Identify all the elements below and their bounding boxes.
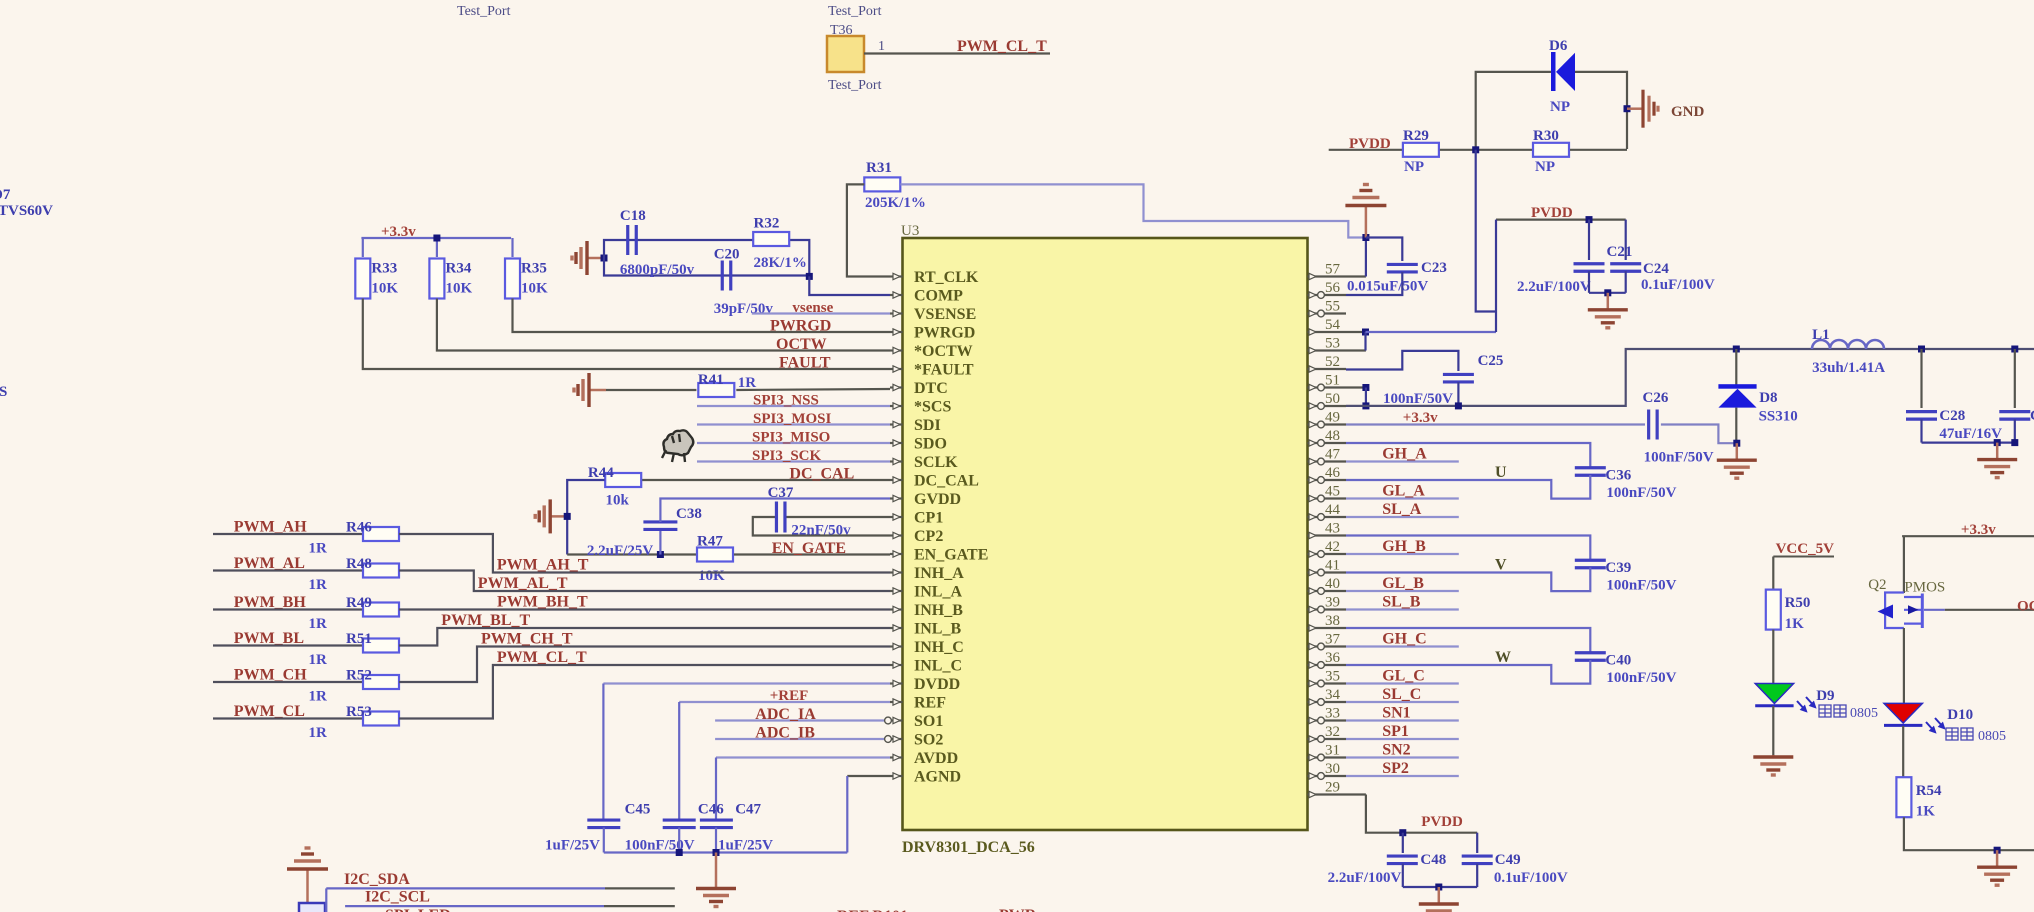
wire C49 bottom bbox=[1476, 864, 1478, 887]
pin DTC stub bbox=[890, 386, 903, 388]
svg-text:2.2uF/25V: 2.2uF/25V bbox=[587, 543, 653, 559]
resistor R48 bbox=[363, 564, 399, 578]
svg-text:C48: C48 bbox=[1420, 852, 1446, 868]
pin *SCS stub bbox=[890, 405, 903, 407]
svg-text:REF: REF bbox=[914, 695, 946, 712]
wire I2C_SCL wire bbox=[345, 905, 604, 907]
junction PVDD gnd node bbox=[1604, 289, 1611, 296]
svg-text:1R: 1R bbox=[309, 689, 328, 705]
wire C49 top bbox=[1476, 833, 1478, 853]
capacitor C25 bbox=[1443, 374, 1474, 382]
svg-text:56: 56 bbox=[1325, 280, 1341, 296]
junction R54 gnd node bbox=[1994, 847, 2001, 854]
svg-text:48: 48 bbox=[1325, 428, 1340, 444]
svg-text:1R: 1R bbox=[309, 725, 328, 741]
svg-text:INL_A: INL_A bbox=[914, 584, 962, 601]
svg-text:32: 32 bbox=[1325, 724, 1340, 740]
pin *OCTW stub bbox=[890, 349, 903, 351]
wire output gnd rail bbox=[1922, 442, 2015, 444]
wire C38 to GVDD bbox=[660, 499, 890, 523]
junction C29 top node bbox=[2011, 346, 2018, 353]
capacitor C29 bbox=[1999, 412, 2030, 420]
svg-text:C46: C46 bbox=[698, 802, 724, 818]
wire net SL_A wire bbox=[1346, 516, 1459, 518]
connector fragment bottom-left bbox=[299, 903, 325, 912]
svg-text:SL_B: SL_B bbox=[1382, 594, 1421, 611]
pin INL_B stub bbox=[890, 627, 903, 629]
svg-text:vsense: vsense bbox=[792, 300, 833, 316]
svg-text:0805: 0805 bbox=[1978, 729, 2006, 744]
wire SCS net bbox=[697, 405, 890, 407]
wire BST wire C40 bbox=[1346, 628, 1590, 653]
wire PVDD bottom gnd rail bbox=[1403, 886, 1477, 888]
svg-text:SPI3_MISO: SPI3_MISO bbox=[752, 430, 830, 446]
wire net SP1 wire bbox=[1346, 738, 1459, 740]
svg-text:10K: 10K bbox=[446, 281, 473, 297]
wire BST wire C39 bbox=[1346, 536, 1590, 561]
capacitor C18 bbox=[628, 225, 637, 255]
svg-text:R48: R48 bbox=[346, 556, 372, 572]
wire C24 top bbox=[1625, 220, 1627, 260]
wire net GL_C wire bbox=[1346, 682, 1459, 684]
junction C47 rail node bbox=[713, 849, 720, 856]
capacitor C47 bbox=[700, 820, 733, 828]
LED D10 red bbox=[1884, 703, 1944, 732]
wire R31 to RT_CLK bbox=[847, 184, 890, 276]
svg-text:SO1: SO1 bbox=[914, 713, 943, 730]
resistor R44 bbox=[605, 473, 641, 487]
wire D6 right bbox=[1575, 72, 1627, 149]
wire analog ground rail bbox=[604, 851, 848, 853]
svg-text:50: 50 bbox=[1325, 391, 1340, 407]
svg-text:EN_GATE: EN_GATE bbox=[914, 547, 988, 564]
svg-text:29: 29 bbox=[1325, 780, 1340, 796]
junction C48 top node bbox=[1399, 829, 1406, 836]
ground ground GND symbol bbox=[1627, 90, 1658, 128]
resistor R51 bbox=[363, 639, 399, 653]
svg-text:I2C_SDA: I2C_SDA bbox=[344, 871, 410, 888]
wire C21 bottom bbox=[1588, 271, 1590, 293]
svg-text:SN2: SN2 bbox=[1382, 742, 1410, 759]
pin AGND stub bbox=[890, 775, 903, 777]
pin 36 stub bbox=[1308, 664, 1347, 666]
wire PWM_CL wire left bbox=[213, 717, 363, 719]
wire R35 top bbox=[511, 238, 513, 257]
junction pin57 node bbox=[1362, 234, 1369, 241]
junction C28 top node bbox=[1918, 346, 1925, 353]
svg-text:100nF/50V: 100nF/50V bbox=[625, 838, 695, 854]
resistor R53 bbox=[363, 712, 399, 726]
wire I2C_SCL wire ext bbox=[604, 905, 675, 907]
svg-text:R51: R51 bbox=[346, 631, 372, 647]
wire PVDD drop bbox=[1495, 220, 1497, 332]
wire VSENSE stub bbox=[752, 312, 890, 314]
wire PWM_CH wire to IC bbox=[399, 647, 890, 683]
pin 32 stub bbox=[1308, 738, 1347, 740]
wire AGND wire bbox=[847, 775, 890, 777]
capacitor C38 bbox=[643, 522, 677, 530]
wire pin29 net bbox=[1366, 795, 1477, 833]
svg-text:R52: R52 bbox=[346, 668, 372, 684]
wire C26 to D8 node bbox=[1661, 425, 1737, 444]
svg-text:40: 40 bbox=[1325, 576, 1340, 592]
svg-text:33uh/1.41A: 33uh/1.41A bbox=[1812, 360, 1885, 376]
svg-text:1uF/25V: 1uF/25V bbox=[545, 838, 600, 854]
capacitor C48 bbox=[1387, 856, 1418, 864]
wire VCC_5V stub bbox=[1773, 556, 1834, 558]
svg-text:35: 35 bbox=[1325, 669, 1340, 685]
junction pin51 corner bbox=[1362, 384, 1369, 391]
wire I2C_SDA wire bbox=[326, 887, 605, 889]
svg-text:C21: C21 bbox=[1607, 244, 1633, 260]
svg-text:+3.3v: +3.3v bbox=[1403, 410, 1438, 426]
wire pin54-53 tie bbox=[1364, 332, 1366, 351]
svg-text:30: 30 bbox=[1325, 761, 1340, 777]
wire D6 loop bbox=[1476, 72, 1551, 150]
svg-text:0805: 0805 bbox=[1850, 706, 1878, 721]
wire C48 top bbox=[1402, 833, 1404, 853]
svg-text:L1: L1 bbox=[1812, 327, 1830, 343]
svg-text:1R: 1R bbox=[309, 616, 328, 632]
pin GVDD stub bbox=[890, 497, 903, 499]
wire EN_GATE wire right bbox=[734, 553, 890, 555]
wire PWM_AH wire left bbox=[213, 533, 363, 535]
svg-text:GL_B: GL_B bbox=[1382, 575, 1424, 592]
inductor L1 bbox=[1812, 340, 1884, 349]
svg-text:2.2uF/100V: 2.2uF/100V bbox=[1328, 870, 1402, 886]
wire net GH_C wire bbox=[1346, 645, 1459, 647]
pin 50 stub bbox=[1308, 405, 1347, 407]
svg-text:R29: R29 bbox=[1403, 128, 1429, 144]
ground ground at R44 bbox=[535, 499, 567, 533]
svg-text:C28: C28 bbox=[1939, 408, 1965, 424]
wire comp bottom path bbox=[604, 258, 809, 276]
ground ground at R41 bbox=[574, 373, 606, 407]
svg-text:ADC_IB: ADC_IB bbox=[755, 725, 815, 742]
junction GND node D6 bbox=[1624, 105, 1631, 112]
wire D10 to R54 bbox=[1902, 726, 1904, 778]
pin CP2 stub bbox=[890, 534, 903, 536]
wire D9 to ground bbox=[1772, 706, 1774, 755]
svg-text:D10: D10 bbox=[1947, 707, 1973, 723]
pin 30 stub bbox=[1308, 775, 1347, 777]
wire C28 bottom bbox=[1920, 419, 1922, 442]
pin INH_B stub bbox=[890, 608, 903, 610]
svg-text:INL_C: INL_C bbox=[914, 658, 962, 675]
pin *FAULT stub bbox=[890, 368, 903, 370]
svg-text:PWM_BL_T: PWM_BL_T bbox=[441, 612, 530, 629]
ground ground under R54 bbox=[1977, 850, 2017, 885]
svg-text:*OCTW: *OCTW bbox=[914, 343, 973, 360]
wire Q2 gate wire bbox=[1924, 609, 1945, 611]
pin INL_C stub bbox=[890, 664, 903, 666]
wire net SL_C wire bbox=[1346, 701, 1459, 703]
ground ground above pin57 bbox=[1345, 185, 1386, 238]
svg-text:1uF/25V: 1uF/25V bbox=[718, 838, 773, 854]
wire D8 anode drop bbox=[1735, 408, 1737, 444]
pin COMP stub bbox=[890, 294, 903, 296]
junction D8 anode node bbox=[1733, 440, 1740, 447]
svg-text:1R: 1R bbox=[309, 577, 328, 593]
svg-text:SP1: SP1 bbox=[1382, 723, 1409, 740]
pin 52 stub bbox=[1308, 368, 1347, 370]
svg-text:AVDD: AVDD bbox=[914, 750, 958, 767]
wire R29 node drop bbox=[1476, 150, 1496, 312]
wire Q2 source riser bbox=[1903, 536, 1905, 593]
svg-text:28K/1%: 28K/1% bbox=[754, 255, 807, 271]
svg-text:100nF/50V: 100nF/50V bbox=[1606, 670, 1676, 686]
svg-text:100nF/50V: 100nF/50V bbox=[1606, 578, 1676, 594]
ground ground under D8 bbox=[1717, 443, 1757, 478]
svg-text:C18: C18 bbox=[620, 208, 646, 224]
svg-text:D7: D7 bbox=[0, 187, 11, 203]
junction C29 bottom node bbox=[2011, 439, 2018, 446]
svg-text:41: 41 bbox=[1325, 558, 1340, 574]
svg-text:1R: 1R bbox=[309, 652, 328, 668]
svg-text:GL_A: GL_A bbox=[1382, 483, 1425, 500]
svg-text:PWR: PWR bbox=[999, 907, 1037, 912]
svg-text:SS310: SS310 bbox=[1759, 409, 1798, 425]
capacitor C46 bbox=[663, 820, 696, 828]
svg-text:DRV8301_DCA_56: DRV8301_DCA_56 bbox=[902, 839, 1035, 856]
wire AGND drop bbox=[846, 776, 848, 853]
wire C46 bottom bbox=[678, 828, 680, 853]
wire to COMP pin bbox=[809, 276, 890, 295]
svg-text:INH_A: INH_A bbox=[914, 565, 964, 582]
wire PWM_AH wire to IC bbox=[399, 534, 890, 573]
wire CP1 wire bbox=[785, 516, 890, 518]
wire net SP2 wire bbox=[1346, 775, 1459, 777]
svg-text:R54: R54 bbox=[1916, 783, 1942, 799]
D10 CJK label 红灯 0805 bbox=[1946, 728, 1973, 740]
wire +3.3v rail bbox=[361, 237, 511, 239]
wire PWM_CL wire to IC bbox=[399, 665, 890, 719]
wire CP1-CP2 link bbox=[753, 517, 890, 536]
svg-text:C47: C47 bbox=[735, 802, 761, 818]
junction C38 EN_GATE node bbox=[657, 551, 664, 558]
transistor Q2 PMOS bbox=[1885, 593, 1922, 629]
capacitor C26 bbox=[1649, 410, 1658, 440]
svg-text:PWM_CL_T: PWM_CL_T bbox=[497, 649, 587, 666]
wire PWM_AL wire left bbox=[213, 569, 363, 571]
svg-text:SDO: SDO bbox=[914, 436, 947, 453]
svg-text:49: 49 bbox=[1325, 410, 1340, 426]
pin 44 stub bbox=[1308, 516, 1347, 518]
svg-text:R30: R30 bbox=[1533, 128, 1559, 144]
resistor R34 bbox=[429, 259, 444, 299]
svg-text:R35: R35 bbox=[521, 261, 547, 277]
wire phase V wire bbox=[1346, 568, 1590, 592]
wire SDO net bbox=[697, 442, 890, 444]
LED D9 green bbox=[1755, 684, 1815, 712]
svg-text:R44: R44 bbox=[588, 465, 614, 481]
wire phase U wire bbox=[1346, 475, 1590, 499]
wire EN_GATE wire left bbox=[567, 553, 696, 555]
pin INH_C stub bbox=[890, 645, 903, 647]
wire SO1 wire bbox=[715, 719, 890, 721]
resistor R41 bbox=[698, 383, 734, 397]
svg-text:47: 47 bbox=[1325, 447, 1341, 463]
wire R29 to R30 bbox=[1440, 149, 1532, 151]
pin 42 stub bbox=[1308, 553, 1347, 555]
svg-text:0.1uF/100V: 0.1uF/100V bbox=[1494, 870, 1568, 886]
junction C25 bottom node bbox=[1455, 402, 1462, 409]
svg-text:C23: C23 bbox=[1421, 260, 1447, 276]
svg-text:43: 43 bbox=[1325, 521, 1340, 537]
svg-text:GL_C: GL_C bbox=[1382, 668, 1425, 685]
svg-text:COMP: COMP bbox=[914, 288, 963, 305]
capacitor C20 bbox=[722, 261, 731, 291]
wire R41 to DTC bbox=[736, 389, 890, 390]
pin 38 stub bbox=[1308, 627, 1347, 629]
pin 29 stub bbox=[1308, 793, 1366, 795]
svg-text:+REF: +REF bbox=[770, 688, 809, 704]
resistor R33 bbox=[355, 259, 370, 299]
svg-text:EN_GATE: EN_GATE bbox=[772, 540, 846, 557]
pin 31 stub bbox=[1308, 756, 1347, 758]
wire +3.3v wire bbox=[1346, 423, 1645, 425]
svg-text:GH_A: GH_A bbox=[1382, 446, 1427, 463]
wire ground to R41 bbox=[606, 389, 696, 391]
svg-text:SL_A: SL_A bbox=[1382, 501, 1422, 518]
svg-text:10K: 10K bbox=[698, 568, 725, 584]
svg-text:INH_C: INH_C bbox=[914, 639, 964, 656]
svg-text:1R: 1R bbox=[738, 375, 757, 391]
junction R29 R30 node bbox=[1472, 146, 1479, 153]
svg-text:OCTW: OCTW bbox=[776, 336, 827, 353]
svg-text:INL_B: INL_B bbox=[914, 621, 961, 638]
pin SO2 stub bbox=[890, 738, 903, 740]
pin SO1 stub bbox=[890, 719, 903, 721]
svg-text:51: 51 bbox=[1325, 373, 1340, 389]
svg-text:42: 42 bbox=[1325, 539, 1340, 555]
capacitor C28 bbox=[1906, 412, 1937, 420]
wire PVDD to R29 bbox=[1329, 149, 1402, 151]
svg-text:DC_CAL: DC_CAL bbox=[789, 466, 854, 483]
pin 48 stub bbox=[1308, 442, 1347, 444]
wire pin52 to C25 top bbox=[1346, 351, 1458, 371]
wire C24 bottom bbox=[1625, 271, 1627, 293]
wire T36 pin 1 to PWM_CL_T bbox=[864, 52, 1050, 54]
svg-text:CP2: CP2 bbox=[914, 528, 943, 545]
svg-text:D9: D9 bbox=[1816, 688, 1834, 704]
svg-text:0.015uF/50V: 0.015uF/50V bbox=[1347, 279, 1428, 295]
svg-text:PWM_CL_T: PWM_CL_T bbox=[957, 38, 1047, 55]
svg-text:10K: 10K bbox=[371, 281, 398, 297]
svg-text:100nF/50V: 100nF/50V bbox=[1383, 391, 1453, 407]
wire REF wire bbox=[679, 701, 890, 703]
wire C29 top bbox=[2014, 349, 2016, 408]
ground ground under D9 bbox=[1753, 755, 1793, 775]
wire R44 left drop bbox=[567, 480, 604, 555]
wire PWM_AL wire to IC bbox=[399, 571, 890, 592]
svg-text:36: 36 bbox=[1325, 650, 1341, 666]
pin PWRGD stub bbox=[890, 331, 903, 333]
svg-text:100nF/50V: 100nF/50V bbox=[1606, 485, 1676, 501]
svg-text:SPI3_MOSI: SPI3_MOSI bbox=[753, 411, 832, 427]
svg-text:SPI3_NSS: SPI3_NSS bbox=[753, 393, 819, 409]
wire phase W wire bbox=[1346, 660, 1590, 684]
svg-text:Test_Port: Test_Port bbox=[828, 78, 882, 93]
pin REF stub bbox=[890, 701, 903, 703]
wire BST wire C36 bbox=[1346, 443, 1590, 468]
wire D8 cathode riser bbox=[1735, 349, 1737, 385]
svg-text:Q2: Q2 bbox=[1868, 577, 1886, 593]
wire net GH_B wire bbox=[1346, 553, 1459, 555]
ground ground PVDD caps bbox=[1588, 293, 1628, 328]
svg-text:33: 33 bbox=[1325, 706, 1340, 722]
svg-text:PMOS: PMOS bbox=[1904, 580, 1945, 596]
svg-text:R33: R33 bbox=[371, 261, 397, 277]
svg-text:ADC_IA: ADC_IA bbox=[755, 706, 816, 723]
wire REF to C46 bbox=[678, 702, 680, 820]
ground ground under rail bbox=[696, 853, 736, 907]
capacitor C21 bbox=[1574, 264, 1605, 272]
wire DVDD to C45 bbox=[602, 684, 604, 821]
svg-text:OC: OC bbox=[2017, 599, 2034, 615]
svg-text:I2C_SCL: I2C_SCL bbox=[365, 889, 430, 906]
svg-text:NP: NP bbox=[1550, 99, 1570, 115]
diode D6 bbox=[1551, 52, 1575, 91]
junction R44 ground node bbox=[564, 513, 571, 520]
svg-text:6800pF/50v: 6800pF/50v bbox=[620, 262, 695, 278]
svg-text:SN1: SN1 bbox=[1382, 705, 1410, 722]
capacitor C39 bbox=[1575, 560, 1606, 568]
wire net GH_A wire bbox=[1346, 460, 1459, 462]
capacitor C45 bbox=[587, 820, 620, 828]
resistor R32 bbox=[753, 232, 789, 246]
wire I2C_SDA wire ext bbox=[605, 887, 675, 889]
wire R34 top bbox=[436, 238, 438, 257]
wire PWM_BH wire to IC bbox=[399, 608, 890, 610]
wire R50 to D9 bbox=[1772, 630, 1774, 684]
svg-text:GH_B: GH_B bbox=[1382, 538, 1426, 555]
junction pin54 node bbox=[1362, 329, 1369, 336]
pin 54 stub bbox=[1308, 331, 1366, 333]
wire PVDD cap gnd rail bbox=[1589, 292, 1626, 294]
svg-text:R47: R47 bbox=[697, 534, 723, 550]
svg-text:PWRGD: PWRGD bbox=[770, 318, 831, 335]
svg-text:R53: R53 bbox=[346, 704, 372, 720]
pin 55 stub bbox=[1308, 312, 1347, 314]
wire C48 bottom bbox=[1402, 864, 1404, 887]
svg-text:*FAULT: *FAULT bbox=[914, 362, 974, 379]
wire PWM_BH wire left bbox=[213, 608, 363, 610]
svg-text:*SCS: *SCS bbox=[914, 399, 951, 416]
wire SCLK net bbox=[697, 460, 890, 462]
svg-text:CP1: CP1 bbox=[914, 510, 943, 527]
ground ground bottom-left bbox=[287, 848, 328, 906]
wire PWM_BL wire to IC bbox=[399, 628, 890, 646]
resistor R49 bbox=[363, 603, 399, 617]
wire C25 bottom bbox=[1457, 382, 1459, 406]
svg-text:Test_Port: Test_Port bbox=[457, 4, 511, 19]
svg-text:44: 44 bbox=[1325, 502, 1341, 518]
wire C21 top bbox=[1588, 220, 1590, 260]
wire pin54 net to PVDD bbox=[1366, 331, 1497, 333]
resistor R54 bbox=[1896, 777, 1911, 817]
junction COMP node bbox=[806, 273, 813, 280]
capacitor C23 bbox=[1387, 264, 1418, 272]
svg-text:PWM_AH_T: PWM_AH_T bbox=[497, 557, 589, 574]
junction bottom gnd node bbox=[1435, 884, 1442, 891]
svg-text:1K: 1K bbox=[1785, 616, 1805, 632]
pin VSENSE stub bbox=[890, 312, 903, 314]
pin CP1 stub bbox=[890, 516, 903, 518]
D9 CJK label 翠绿 0805 bbox=[1819, 705, 1846, 717]
junction +3.3v R34 tap bbox=[433, 235, 440, 242]
wire PWM_BL wire left bbox=[213, 644, 363, 646]
